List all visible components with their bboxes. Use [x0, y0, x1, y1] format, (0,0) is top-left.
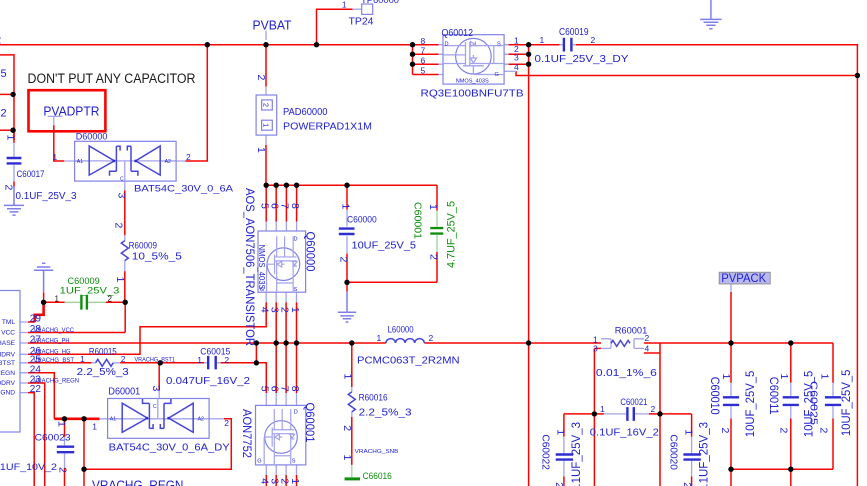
svg-text:VRACHG_BST: VRACHG_BST — [34, 357, 75, 364]
svg-text:HIDRV: HIDRV — [0, 351, 16, 358]
svg-text:C60022: C60022 — [540, 434, 552, 470]
svg-text:1: 1 — [555, 429, 567, 435]
svg-text:1: 1 — [255, 147, 267, 153]
svg-text:TP24: TP24 — [349, 17, 374, 28]
svg-text:GND: GND — [0, 390, 15, 397]
svg-text:2: 2 — [681, 482, 693, 486]
svg-text:7: 7 — [421, 45, 426, 55]
svg-text:C60023: C60023 — [35, 433, 71, 444]
svg-text:Q60012: Q60012 — [442, 28, 474, 39]
svg-text:VRACHG_REGN: VRACHG_REGN — [92, 478, 184, 486]
svg-text:1: 1 — [262, 123, 271, 127]
svg-text:1: 1 — [600, 404, 605, 414]
svg-text:0.1UF_25V_3: 0.1UF_25V_3 — [569, 422, 583, 486]
svg-text:POWERPAD1X1M: POWERPAD1X1M — [283, 122, 372, 133]
svg-text:2: 2 — [645, 333, 650, 343]
svg-text:2: 2 — [3, 185, 15, 191]
svg-text:NMOS_403S: NMOS_403S — [257, 245, 267, 290]
svg-text:2: 2 — [262, 103, 271, 107]
svg-text:2: 2 — [113, 223, 125, 229]
svg-text:1: 1 — [114, 277, 126, 283]
svg-text:4.7UF_25V_5: 4.7UF_25V_5 — [446, 201, 458, 268]
svg-text:2: 2 — [224, 418, 229, 428]
svg-text:C: C — [153, 404, 157, 410]
svg-text:2: 2 — [778, 428, 790, 434]
svg-text:0.01_1%_6: 0.01_1%_6 — [596, 368, 658, 379]
svg-text:6: 6 — [421, 55, 426, 65]
svg-text:A1: A1 — [77, 159, 83, 165]
svg-text:22: 22 — [30, 384, 42, 395]
svg-text:AOS_AON7506_TRANSISTOR: AOS_AON7506_TRANSISTOR — [243, 188, 257, 346]
svg-text:8: 8 — [289, 386, 301, 392]
svg-text:1: 1 — [289, 478, 301, 484]
svg-text:2: 2 — [57, 467, 69, 473]
svg-text:D: D — [294, 410, 298, 416]
svg-text:2.2_5%_3: 2.2_5%_3 — [77, 367, 129, 378]
svg-text:1: 1 — [80, 354, 85, 364]
svg-text:1: 1 — [427, 204, 439, 210]
svg-text:DON'T PUT ANY CAPACITOR: DON'T PUT ANY CAPACITOR — [28, 71, 196, 86]
svg-text:8: 8 — [421, 36, 426, 46]
svg-text:1: 1 — [92, 422, 97, 432]
svg-text:C60021: C60021 — [620, 397, 647, 408]
svg-text:C60001: C60001 — [412, 202, 423, 239]
svg-text:D: D — [294, 236, 298, 242]
svg-text:2: 2 — [337, 257, 349, 263]
svg-text:VRACHG_REGN: VRACHG_REGN — [34, 377, 80, 384]
svg-text:VRACHG_HG: VRACHG_HG — [34, 349, 71, 356]
svg-text:D60001: D60001 — [108, 387, 140, 398]
svg-text:2: 2 — [279, 478, 291, 484]
svg-text:VRACHG_VCC: VRACHG_VCC — [34, 327, 75, 334]
svg-text:10UF_25V_5: 10UF_25V_5 — [352, 240, 417, 251]
svg-text:L60000: L60000 — [388, 324, 414, 334]
svg-text:5: 5 — [1, 68, 7, 80]
svg-text:1: 1 — [56, 421, 68, 427]
svg-text:C60019: C60019 — [559, 27, 589, 38]
svg-text:C66016: C66016 — [363, 471, 392, 482]
svg-text:2: 2 — [0, 35, 1, 47]
svg-text:8: 8 — [289, 203, 301, 209]
svg-text:Q60001: Q60001 — [303, 403, 315, 443]
svg-text:BAT54C_30V_0_6A: BAT54C_30V_0_6A — [134, 184, 234, 195]
svg-text:Q60000: Q60000 — [304, 232, 316, 272]
svg-text:5: 5 — [421, 66, 426, 76]
svg-text:2: 2 — [651, 404, 656, 414]
svg-text:D60000: D60000 — [76, 132, 108, 143]
svg-text:R60015: R60015 — [89, 347, 117, 358]
svg-text:1: 1 — [53, 152, 58, 162]
svg-text:C60000: C60000 — [347, 215, 377, 225]
svg-text:2: 2 — [1, 108, 7, 120]
svg-text:10UF_25V_5: 10UF_25V_5 — [802, 370, 816, 437]
svg-text:REGN: REGN — [0, 370, 15, 377]
svg-text:29: 29 — [30, 314, 42, 325]
svg-text:AON7752: AON7752 — [240, 409, 252, 458]
svg-text:2: 2 — [341, 425, 353, 431]
svg-text:2: 2 — [818, 428, 830, 434]
svg-text:4: 4 — [514, 62, 519, 72]
svg-text:TML: TML — [2, 319, 16, 326]
svg-text:2: 2 — [108, 295, 113, 304]
svg-text:1: 1 — [819, 374, 831, 380]
svg-text:2: 2 — [279, 307, 291, 313]
svg-text:G: G — [495, 72, 499, 78]
svg-text:3: 3 — [150, 386, 162, 392]
svg-text:2: 2 — [186, 152, 191, 162]
svg-text:PVPACK: PVPACK — [721, 273, 766, 285]
svg-text:1: 1 — [55, 295, 60, 304]
svg-text:2: 2 — [429, 333, 434, 343]
svg-text:C60011: C60011 — [767, 377, 779, 415]
svg-text:2: 2 — [591, 35, 596, 45]
svg-text:0.1UF_10V_2: 0.1UF_10V_2 — [0, 462, 57, 473]
svg-text:C60020: C60020 — [667, 434, 679, 470]
svg-text:1: 1 — [340, 204, 352, 210]
svg-text:1: 1 — [4, 135, 16, 141]
svg-text:VRACHG_SNB: VRACHG_SNB — [355, 449, 399, 455]
svg-text:A2: A2 — [198, 417, 204, 423]
svg-text:1: 1 — [720, 374, 732, 380]
svg-text:G: G — [257, 459, 261, 465]
svg-text:LODRV: LODRV — [0, 380, 16, 387]
svg-text:3: 3 — [116, 193, 128, 199]
svg-text:3: 3 — [514, 53, 519, 63]
svg-text:VCC: VCC — [1, 330, 15, 337]
svg-text:NMOS_403S: NMOS_403S — [456, 79, 489, 85]
svg-text:R60016: R60016 — [359, 392, 388, 403]
svg-text:0.1UF_25V_3: 0.1UF_25V_3 — [697, 422, 711, 486]
svg-text:S: S — [497, 42, 501, 48]
svg-text:S: S — [294, 287, 298, 293]
svg-text:0.1UF_16V_2: 0.1UF_16V_2 — [590, 428, 659, 439]
svg-text:1: 1 — [197, 355, 202, 365]
svg-text:2: 2 — [428, 254, 440, 260]
svg-text:2: 2 — [121, 354, 126, 364]
svg-text:PCMC063T_2R2MN: PCMC063T_2R2MN — [357, 355, 460, 366]
svg-text:PAD60000: PAD60000 — [283, 107, 328, 118]
svg-text:10UF_25V_5: 10UF_25V_5 — [743, 370, 757, 437]
svg-text:2: 2 — [224, 355, 229, 365]
svg-text:A1: A1 — [110, 417, 116, 423]
svg-text:C: C — [120, 176, 124, 182]
svg-text:D: D — [445, 42, 449, 48]
svg-text:C60017: C60017 — [17, 169, 45, 179]
svg-text:R60001: R60001 — [615, 325, 648, 336]
svg-text:C60010: C60010 — [708, 377, 720, 415]
svg-text:1: 1 — [540, 35, 545, 45]
svg-text:0.1UF_25V_3: 0.1UF_25V_3 — [16, 191, 77, 202]
svg-text:1: 1 — [778, 374, 790, 380]
svg-text:PVBAT: PVBAT — [253, 18, 292, 33]
svg-text:7: 7 — [279, 386, 291, 392]
svg-text:10_5%_5: 10_5%_5 — [132, 251, 182, 263]
svg-text:TP60000: TP60000 — [361, 0, 399, 6]
svg-text:1: 1 — [341, 455, 353, 461]
svg-text:R60009: R60009 — [129, 241, 157, 251]
svg-text:1: 1 — [341, 374, 353, 380]
svg-text:RQ3E100BNFU7TB: RQ3E100BNFU7TB — [421, 88, 524, 100]
svg-text:BAT54C_30V_0_6A_DY: BAT54C_30V_0_6A_DY — [109, 441, 230, 453]
svg-text:VRACHG_PH: VRACHG_PH — [34, 337, 70, 344]
svg-text:2.2_5%_3: 2.2_5%_3 — [359, 408, 413, 419]
svg-text:7: 7 — [279, 203, 291, 209]
svg-text:10UF_25V_5: 10UF_25V_5 — [839, 369, 853, 436]
svg-text:1: 1 — [683, 429, 695, 435]
svg-text:1: 1 — [342, 1, 347, 10]
svg-text:PHASE: PHASE — [0, 340, 16, 347]
svg-text:4: 4 — [645, 344, 650, 354]
svg-text:VRACHG_BST1: VRACHG_BST1 — [135, 357, 176, 363]
svg-text:3: 3 — [593, 344, 598, 354]
svg-text:2: 2 — [719, 428, 731, 434]
svg-text:A2: A2 — [165, 159, 171, 165]
svg-text:0.1UF_25V_3_DY: 0.1UF_25V_3_DY — [535, 53, 629, 65]
svg-text:2: 2 — [553, 482, 565, 486]
svg-text:2: 2 — [255, 75, 267, 81]
svg-text:1: 1 — [377, 333, 382, 343]
svg-text:0.047UF_16V_2: 0.047UF_16V_2 — [166, 376, 250, 387]
svg-text:BTST: BTST — [0, 360, 15, 367]
svg-text:S: S — [292, 459, 296, 465]
svg-text:1: 1 — [289, 307, 301, 313]
